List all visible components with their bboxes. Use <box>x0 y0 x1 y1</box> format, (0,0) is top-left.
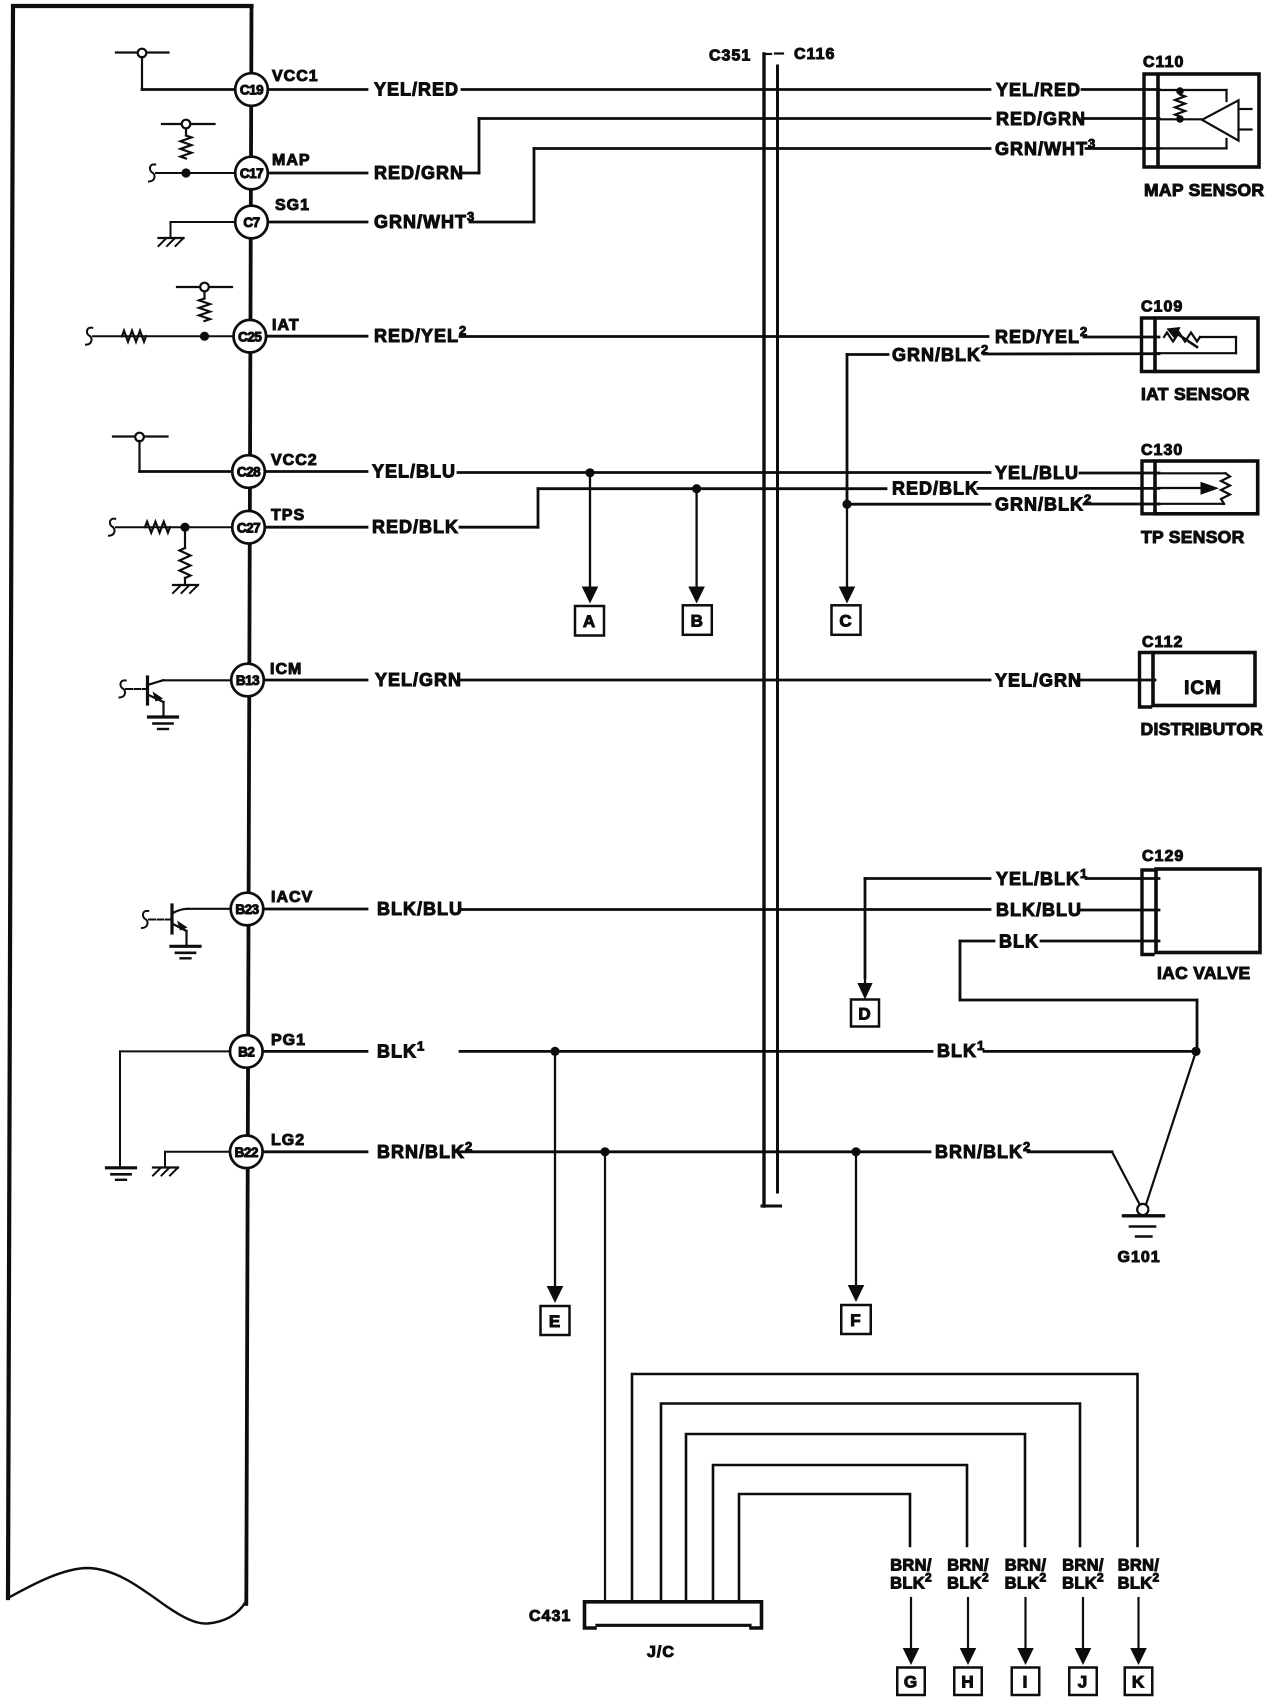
svg-text:YEL/GRN: YEL/GRN <box>375 670 462 690</box>
svg-text:IAT: IAT <box>272 317 300 334</box>
svg-text:TPS: TPS <box>271 507 305 524</box>
svg-text:YEL/BLU: YEL/BLU <box>372 462 456 482</box>
svg-text:C27: C27 <box>237 520 260 535</box>
svg-text:LG2: LG2 <box>271 1132 305 1149</box>
svg-text:RED/BLK: RED/BLK <box>892 479 979 499</box>
svg-text:BLK2: BLK2 <box>890 1571 932 1593</box>
svg-text:C109: C109 <box>1141 299 1183 316</box>
svg-text:C110: C110 <box>1143 54 1184 71</box>
svg-text:BLK2: BLK2 <box>1062 1571 1104 1593</box>
svg-text:I: I <box>1023 1673 1029 1692</box>
svg-text:RED/BLK: RED/BLK <box>372 517 459 537</box>
svg-text:GRN/BLK2: GRN/BLK2 <box>995 492 1092 515</box>
svg-text:C431: C431 <box>529 1608 571 1625</box>
svg-text:C25: C25 <box>238 329 262 344</box>
svg-text:DISTRIBUTOR: DISTRIBUTOR <box>1141 719 1264 739</box>
svg-text:C351: C351 <box>709 48 751 65</box>
svg-text:C130: C130 <box>1141 442 1183 459</box>
svg-text:BRN/BLK2: BRN/BLK2 <box>935 1139 1031 1162</box>
svg-text:C7: C7 <box>243 215 259 230</box>
svg-text:C116: C116 <box>794 46 835 63</box>
svg-text:BLK/BLU: BLK/BLU <box>377 899 463 919</box>
svg-text:B2: B2 <box>238 1045 254 1060</box>
svg-text:H: H <box>961 1673 974 1692</box>
svg-text:E: E <box>549 1312 561 1331</box>
svg-text:BRN/BLK2: BRN/BLK2 <box>377 1139 473 1162</box>
svg-text:ICM: ICM <box>270 661 302 678</box>
svg-text:BLK1: BLK1 <box>377 1038 425 1061</box>
svg-text:BLK2: BLK2 <box>1005 1571 1047 1593</box>
svg-text:GRN/BLK2: GRN/BLK2 <box>892 342 989 365</box>
svg-text:PG1: PG1 <box>271 1032 306 1049</box>
svg-text:K: K <box>1132 1673 1145 1692</box>
svg-text:YEL/RED: YEL/RED <box>996 80 1081 100</box>
svg-text:MAP: MAP <box>272 152 311 169</box>
svg-text:YEL/BLU: YEL/BLU <box>995 463 1079 483</box>
svg-text:A: A <box>583 612 596 631</box>
svg-text:BLK1: BLK1 <box>937 1038 985 1061</box>
svg-text:RED/YEL2: RED/YEL2 <box>995 324 1088 347</box>
svg-text:MAP SENSOR: MAP SENSOR <box>1144 180 1264 200</box>
svg-text:D: D <box>858 1004 871 1023</box>
svg-text:IAT SENSOR: IAT SENSOR <box>1141 384 1250 404</box>
svg-text:G101: G101 <box>1118 1249 1161 1266</box>
svg-text:VCC2: VCC2 <box>271 452 318 469</box>
svg-text:B23: B23 <box>235 902 259 917</box>
svg-text:BLK: BLK <box>999 932 1039 952</box>
svg-text:B: B <box>691 611 704 630</box>
svg-text:YEL/RED: YEL/RED <box>374 80 459 100</box>
svg-text:RED/GRN: RED/GRN <box>996 109 1086 129</box>
svg-text:BLK2: BLK2 <box>947 1571 989 1593</box>
svg-text:C19: C19 <box>240 83 263 98</box>
svg-text:C17: C17 <box>240 166 263 181</box>
svg-text:YEL/BLK1: YEL/BLK1 <box>996 866 1088 889</box>
svg-text:C129: C129 <box>1142 848 1184 865</box>
svg-text:C: C <box>839 611 852 630</box>
svg-text:C112: C112 <box>1142 634 1183 651</box>
svg-text:J: J <box>1078 1673 1088 1692</box>
svg-text:BLK/BLU: BLK/BLU <box>996 900 1082 920</box>
svg-text:GRN/WHT3: GRN/WHT3 <box>374 209 475 232</box>
svg-text:J/C: J/C <box>647 1644 675 1661</box>
svg-text:VCC1: VCC1 <box>272 68 319 85</box>
svg-text:ICM: ICM <box>1184 678 1222 699</box>
svg-text:RED/YEL2: RED/YEL2 <box>374 323 467 346</box>
svg-text:BLK2: BLK2 <box>1118 1571 1160 1593</box>
svg-text:F: F <box>850 1311 861 1330</box>
svg-text:G: G <box>904 1673 918 1692</box>
svg-text:SG1: SG1 <box>275 197 310 214</box>
svg-text:IACV: IACV <box>271 889 313 906</box>
svg-text:TP SENSOR: TP SENSOR <box>1141 527 1245 547</box>
svg-text:B13: B13 <box>236 673 260 688</box>
svg-text:YEL/GRN: YEL/GRN <box>995 671 1082 691</box>
svg-text:RED/GRN: RED/GRN <box>374 163 464 183</box>
svg-text:C28: C28 <box>237 465 261 480</box>
svg-text:B22: B22 <box>235 1145 258 1160</box>
svg-text:GRN/WHT3: GRN/WHT3 <box>995 136 1096 159</box>
svg-text:IAC VALVE: IAC VALVE <box>1157 963 1250 983</box>
